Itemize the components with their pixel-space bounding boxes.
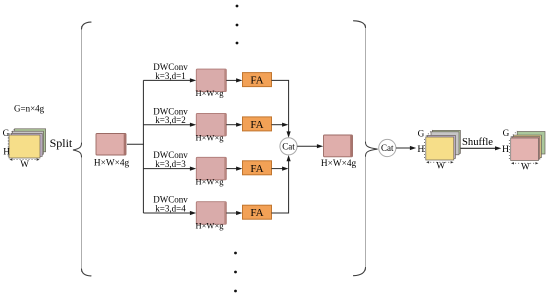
bottom ellipsis dots	[234, 252, 237, 255]
svg-text:FA: FA	[250, 207, 263, 219]
H dotted measure	[7, 138, 9, 157]
feature box B2	[196, 113, 226, 135]
Cat node 2	[379, 139, 396, 156]
split brace (left curly)	[81, 26, 83, 272]
W dotted measure (output cube)	[512, 162, 537, 164]
Cat node 1	[280, 138, 297, 155]
top ellipsis dots	[236, 5, 239, 8]
svg-text:H×W×4g: H×W×4g	[321, 159, 357, 169]
FA box 3	[243, 161, 272, 175]
svg-text:H×W×g: H×W×g	[196, 88, 225, 98]
svg-text:H×W×g: H×W×g	[196, 176, 225, 186]
G dotted measure (output cube)	[511, 131, 517, 137]
wire B1 to FA1	[226, 79, 237, 81]
FA box 1	[243, 73, 272, 87]
H dotted measure (output cube)	[508, 140, 510, 160]
G dotted measure (middle cube)	[426, 130, 432, 136]
G depth dotted measure	[10, 128, 16, 134]
branch 3 arrow	[143, 168, 190, 170]
svg-text:H×W×4g: H×W×4g	[94, 158, 130, 168]
feature box B4	[196, 202, 226, 225]
wire B2 to FA2	[226, 124, 237, 126]
svg-text:H×W×g: H×W×g	[196, 132, 225, 142]
svg-text:Split: Split	[50, 136, 73, 150]
wire FA4 to collector	[272, 160, 289, 213]
svg-text:H: H	[3, 147, 10, 157]
wire Cat2 to cube	[396, 147, 411, 149]
branch 4 arrow	[143, 212, 190, 214]
wire FA3 to collector	[272, 168, 284, 170]
FA box 4	[243, 205, 272, 219]
box H×W×4g (concat)	[324, 135, 353, 157]
svg-text:G: G	[3, 128, 10, 138]
wire FA2 to collector	[272, 124, 284, 126]
arrow into Cat1 bottom	[287, 155, 291, 161]
middle cube stack	[426, 130, 461, 160]
svg-text:FA: FA	[250, 119, 263, 131]
svg-text:k=3,d=1: k=3,d=1	[155, 71, 185, 81]
svg-text:Cat: Cat	[282, 142, 295, 152]
H dotted measure (middle cube)	[423, 139, 425, 159]
svg-text:G: G	[503, 128, 510, 138]
output cube stack	[511, 132, 545, 161]
wire input box to trunk	[127, 143, 144, 145]
svg-text:Shuffle: Shuffle	[462, 137, 493, 148]
svg-text:W: W	[436, 162, 445, 172]
wire FA1 to collector	[272, 80, 289, 132]
input cube stack	[9, 129, 46, 158]
wire B3 to FA3	[226, 168, 237, 170]
svg-text:H: H	[502, 144, 509, 155]
branch 1 arrow	[143, 79, 190, 81]
svg-text:k=3,d=3: k=3,d=3	[155, 159, 186, 169]
svg-text:W: W	[20, 159, 29, 169]
box H×W×4g (input)	[96, 134, 126, 156]
feature box B3	[196, 157, 226, 180]
branch 2 arrow	[143, 124, 190, 126]
svg-text:FA: FA	[250, 75, 263, 87]
svg-text:H×W×g: H×W×g	[196, 221, 225, 231]
svg-text:W: W	[521, 162, 530, 172]
loop brace (right curly)	[365, 25, 367, 271]
svg-text:H: H	[417, 144, 424, 155]
W dotted measure	[11, 159, 39, 161]
trunk wire	[142, 80, 144, 213]
svg-text:G: G	[418, 128, 425, 138]
FA box 2	[243, 117, 272, 131]
shuffle arrow	[461, 147, 496, 149]
arrow into Cat1 top	[287, 131, 291, 137]
wire B4 to FA4	[226, 212, 237, 214]
svg-text:Cat: Cat	[381, 143, 394, 153]
svg-text:G=n×4g: G=n×4g	[14, 104, 45, 114]
svg-text:k=3,d=4: k=3,d=4	[155, 204, 186, 214]
W dotted measure (middle cube)	[427, 161, 452, 163]
svg-text:FA: FA	[250, 163, 263, 175]
feature box B1	[196, 69, 226, 92]
svg-text:k=3,d=2: k=3,d=2	[155, 115, 185, 125]
wire Cat1 to concat box	[297, 145, 318, 147]
